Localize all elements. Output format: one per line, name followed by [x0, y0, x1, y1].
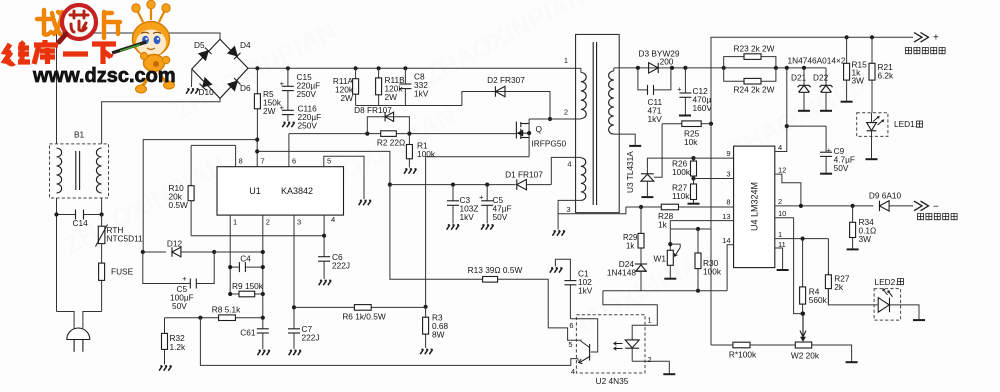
resistor R25 — [662, 123, 682, 125]
pin 7 of U1 — [256, 140, 258, 167]
transformer T1 core box — [576, 34, 620, 212]
svg-text:D6: D6 — [240, 83, 251, 93]
wire VCC rail — [390, 184, 516, 186]
resistor R23 — [724, 57, 744, 68]
svg-text:3: 3 — [566, 205, 570, 214]
wire pin13 to W1 — [670, 221, 733, 229]
svg-text:250V: 250V — [297, 89, 317, 99]
svg-text:W1: W1 — [654, 254, 667, 264]
IC U1 KA3842 — [217, 167, 344, 215]
svg-text:1kV: 1kV — [578, 286, 593, 296]
wire pin12 jog — [775, 174, 801, 206]
wire pin3 net — [694, 178, 734, 180]
wire pin8 net R28 — [641, 206, 734, 208]
resistor Rstar 100k — [711, 344, 733, 346]
svg-text:−: − — [933, 202, 939, 213]
capacitor C5 electrolytic — [143, 252, 191, 284]
wire TL431 ref — [654, 124, 662, 178]
capacitor C5 47u — [486, 185, 488, 201]
svg-text:11: 11 — [778, 240, 786, 249]
wire feedback bottom row — [603, 290, 727, 292]
resistor R1 — [408, 134, 410, 145]
opto phototransistor — [570, 319, 597, 352]
resistor R30 — [697, 229, 699, 253]
svg-text:12: 12 — [778, 166, 786, 175]
wire divider top — [670, 228, 711, 230]
diode D12 — [143, 251, 166, 253]
wire pin10 jog — [775, 218, 803, 314]
opto LED — [625, 340, 639, 348]
diode D4 — [228, 47, 241, 60]
svg-text:1kV: 1kV — [460, 212, 475, 222]
svg-text:D1 FR107: D1 FR107 — [505, 170, 543, 180]
wire snubber bottom row — [356, 105, 462, 107]
wire battery positive rail — [711, 37, 913, 345]
wire R13 sense — [390, 185, 483, 280]
wire pin4 supply — [775, 126, 787, 151]
svg-text:LED2.: LED2. — [875, 277, 898, 287]
diode D9 6A10 — [879, 201, 889, 211]
capacitor C1 — [569, 285, 571, 319]
common bar below LED1 — [866, 158, 878, 160]
pin 8 of U1 — [235, 145, 237, 166]
wire LED2 to common — [890, 305, 920, 320]
svg-text:5: 5 — [327, 157, 331, 166]
pin 6 of U1 — [288, 134, 290, 167]
svg-text:U3 TL431A: U3 TL431A — [625, 151, 635, 193]
svg-text:50V: 50V — [834, 163, 849, 173]
ground at bridge negative — [191, 69, 193, 87]
svg-text:R24 2k 2W: R24 2k 2W — [733, 85, 774, 95]
wire B1 right down through RTH FUSE — [101, 198, 103, 215]
svg-text:560k: 560k — [809, 295, 828, 305]
resistor R34 — [852, 206, 854, 222]
svg-text:14: 14 — [722, 236, 730, 245]
svg-text:D12: D12 — [167, 239, 183, 249]
ground below C5 — [481, 225, 493, 230]
svg-text:110k: 110k — [672, 191, 690, 201]
svg-text:C14: C14 — [73, 218, 89, 228]
svg-text:50V: 50V — [172, 301, 187, 311]
wire gate drive — [289, 133, 517, 135]
svg-text:W2 20k: W2 20k — [791, 351, 820, 361]
potentiometer W1 — [669, 229, 671, 250]
zener diode D21 — [803, 68, 805, 85]
svg-text:4: 4 — [567, 160, 571, 169]
bridge rectifier diamond — [192, 39, 248, 98]
wire primary HV rail — [248, 67, 576, 69]
svg-text:LM324M: LM324M — [750, 182, 760, 217]
svg-text:U1: U1 — [249, 186, 261, 196]
svg-text:LED1.: LED1. — [894, 119, 917, 129]
svg-text:www.dzsc.com: www.dzsc.com — [32, 65, 176, 87]
ground below C116 — [287, 115, 289, 121]
wire pin9 net — [694, 157, 734, 159]
svg-text:R*100k: R*100k — [729, 350, 757, 360]
capacitor C12 — [684, 68, 686, 93]
terminal battery positive — [914, 33, 929, 43]
capacitor C8 — [404, 68, 406, 84]
capacitor C14 — [57, 214, 76, 216]
svg-text:6: 6 — [569, 321, 573, 330]
svg-text:U2 4N35: U2 4N35 — [596, 376, 629, 386]
zener diode D22 — [825, 68, 827, 85]
svg-text:100k: 100k — [417, 149, 436, 159]
svg-text:C4: C4 — [240, 254, 251, 264]
svg-text:R8 5.1k: R8 5.1k — [212, 305, 241, 315]
wire W2 to common — [812, 345, 852, 362]
wire to LED2 — [828, 289, 877, 305]
transformer aux winding pins 4-3 — [580, 156, 582, 158]
ground for C1 — [550, 268, 562, 273]
svg-text:R13 39Ω 0.5W: R13 39Ω 0.5W — [468, 265, 523, 275]
transistor Q IRFPG50 — [515, 122, 517, 139]
wire D12 to pin2 — [214, 251, 263, 253]
watermark mascot — [108, 0, 175, 93]
resistor R5 — [256, 68, 258, 94]
potentiometer W2 — [795, 342, 811, 348]
svg-text:FUSE: FUSE — [111, 267, 134, 277]
ground below C3 — [447, 225, 459, 230]
wire pin7 to VCC rail — [257, 151, 390, 184]
svg-text:1kV: 1kV — [648, 114, 663, 124]
resistor R10 — [191, 144, 236, 146]
capacitor C9 — [825, 126, 827, 152]
svg-text:D8 FR107: D8 FR107 — [354, 105, 392, 115]
wire B1 left down to plug — [56, 198, 58, 215]
resistor R27 110k — [693, 179, 695, 185]
resistor R2 — [381, 131, 397, 137]
capacitor C7 — [292, 305, 296, 309]
svg-text:4: 4 — [571, 367, 575, 376]
diode D8 FR107 loop — [367, 117, 409, 134]
svg-text:100k: 100k — [672, 167, 691, 177]
ground below R32 — [159, 366, 171, 371]
svg-text:0.5W: 0.5W — [169, 200, 189, 210]
capacitor C61 — [257, 328, 269, 330]
fuse FUSE — [101, 244, 103, 264]
svg-text:9: 9 — [726, 149, 730, 158]
svg-text:1kV: 1kV — [414, 89, 429, 99]
transformer secondary winding — [613, 68, 615, 71]
capacitor C116 — [287, 91, 289, 111]
svg-text:1k: 1k — [626, 242, 634, 251]
resistor R11A — [355, 68, 357, 78]
wire D24 to opto LED — [640, 271, 642, 290]
svg-text:2W: 2W — [341, 93, 354, 103]
wire AC line to bridge bottom — [102, 98, 220, 143]
resistor R11B — [378, 68, 380, 78]
pin 2 of U1 — [262, 215, 264, 329]
svg-text:13: 13 — [722, 212, 730, 221]
svg-text:4: 4 — [331, 215, 335, 224]
svg-text:B1: B1 — [74, 130, 85, 140]
resistor R24 — [724, 68, 744, 81]
diode D2 FR307 — [495, 86, 505, 96]
diode D1 FR107 — [517, 179, 527, 189]
svg-text:R2 22Ω: R2 22Ω — [377, 138, 405, 148]
svg-text:R6 1k/0.5W: R6 1k/0.5W — [342, 312, 386, 322]
IC U4 LM324M — [734, 146, 775, 268]
svg-text:D2 FR307: D2 FR307 — [487, 75, 525, 85]
svg-text:3W: 3W — [852, 76, 865, 86]
svg-text:160V: 160V — [693, 103, 713, 113]
svg-text:4: 4 — [778, 143, 782, 152]
wire transformer pin2 to drain — [529, 118, 581, 120]
resistor R15 — [846, 37, 848, 63]
svg-text:+: + — [827, 146, 832, 155]
wire R10 to pin4 — [191, 235, 324, 237]
svg-text:Q: Q — [536, 124, 543, 134]
resistor R28 body — [661, 204, 678, 210]
resistor R32 — [164, 318, 166, 334]
svg-text:D10: D10 — [199, 87, 215, 97]
svg-text:222J: 222J — [332, 261, 350, 271]
svg-text:6.2k: 6.2k — [878, 71, 895, 81]
watermark logo zhaoxinpian — [37, 5, 120, 42]
filter transformer B1 — [50, 144, 109, 198]
pin 1 of U1 — [229, 215, 231, 294]
svg-text:+: + — [677, 85, 682, 94]
capacitor C15 — [287, 68, 289, 86]
svg-text:7: 7 — [261, 157, 265, 166]
svg-text:3: 3 — [726, 170, 730, 179]
common bar below C12 — [679, 115, 691, 117]
resistor R3 — [425, 307, 427, 317]
svg-text:R9 150k: R9 150k — [232, 281, 264, 291]
diode D3 BYW29 — [649, 63, 659, 73]
thermistor RTH NTC5D11 — [101, 215, 103, 227]
wire R28 left tap — [626, 206, 641, 208]
pin 3 of U1 — [293, 215, 295, 329]
wire source to R3 — [426, 157, 529, 307]
svg-text:2: 2 — [648, 355, 652, 364]
svg-text:R23 2k 2W: R23 2k 2W — [733, 44, 774, 54]
resistor R4 — [802, 239, 804, 287]
wire D2 snubber loop — [462, 92, 550, 120]
wire startup VCC link — [143, 140, 257, 252]
svg-text:IRFPG50: IRFPG50 — [532, 139, 567, 149]
diode D24 1N4148 — [635, 263, 647, 265]
svg-text:2W: 2W — [263, 106, 276, 116]
terminal battery negative — [914, 201, 929, 211]
ground below C6 — [319, 280, 331, 285]
svg-text:3: 3 — [297, 218, 301, 227]
resistor R6 — [294, 306, 354, 308]
wire opto pin2 to common — [632, 361, 669, 373]
svg-text:8: 8 — [726, 198, 730, 207]
ground below C61 — [257, 350, 269, 355]
svg-text:2: 2 — [778, 197, 782, 206]
resistor R8 — [165, 317, 219, 319]
AC plug — [57, 312, 75, 329]
pin 4 of U1 — [323, 215, 325, 257]
svg-text:+: + — [182, 274, 187, 283]
svg-text:D21: D21 — [791, 73, 807, 83]
wire AC line top — [57, 33, 221, 144]
svg-text:200: 200 — [660, 57, 674, 67]
diode D6 — [228, 78, 241, 91]
resistor R26 — [691, 156, 695, 160]
capacitor C4 — [230, 266, 239, 268]
optocoupler U2 4N35 — [576, 315, 645, 373]
capacitor C3 — [452, 185, 454, 201]
svg-text:+: + — [280, 79, 285, 88]
svg-text:1N4746A014×2: 1N4746A014×2 — [788, 56, 846, 66]
resistor R29 — [640, 207, 642, 233]
svg-text:D5: D5 — [194, 40, 205, 50]
wire R28 net tap — [558, 207, 626, 214]
transformer primary winding pins 1-2 — [576, 67, 581, 69]
svg-text:1: 1 — [564, 56, 568, 65]
svg-text:3W: 3W — [859, 234, 872, 244]
svg-text:222J: 222J — [302, 333, 320, 343]
svg-text:8: 8 — [239, 157, 243, 166]
svg-text:100k: 100k — [703, 267, 722, 277]
svg-text:8W: 8W — [432, 330, 445, 340]
wire V+ feed — [786, 68, 788, 126]
wire battery negative rail — [775, 205, 874, 207]
common bar below C9 — [820, 173, 832, 175]
ground below R3 — [420, 349, 432, 354]
svg-text:1: 1 — [233, 218, 237, 227]
LED LED2 green — [874, 289, 901, 321]
wire pin1 net — [775, 238, 829, 240]
svg-text:1N4148: 1N4148 — [607, 268, 636, 278]
wire secondary output rail — [614, 67, 826, 69]
svg-text:+: + — [479, 193, 484, 202]
shunt regulator U3 TL431A — [647, 158, 693, 174]
svg-text:50V: 50V — [493, 212, 508, 222]
svg-text:10: 10 — [778, 209, 786, 218]
svg-text:1: 1 — [778, 230, 782, 239]
svg-text:5: 5 — [568, 340, 572, 349]
diode D10 — [199, 78, 211, 90]
svg-text:U4: U4 — [750, 219, 760, 231]
svg-text:1: 1 — [648, 316, 652, 325]
svg-text:6: 6 — [292, 157, 296, 166]
capacitor C11 snubber — [638, 68, 648, 90]
pin 5 of U1 to ground — [324, 156, 364, 199]
ground below C7 — [289, 350, 301, 355]
resistor R9 — [230, 293, 239, 295]
svg-text:250V: 250V — [298, 120, 318, 130]
svg-text:2: 2 — [564, 108, 568, 117]
resistor R21 — [871, 37, 873, 63]
svg-text:D4: D4 — [240, 40, 251, 50]
diode D5 — [199, 48, 212, 61]
resistor R27 2k — [827, 239, 829, 275]
svg-text:+: + — [280, 103, 285, 112]
wire opto pin1 jog — [603, 291, 657, 340]
decor ghost watermarks — [59, 0, 896, 350]
wire pin14 riser — [727, 245, 734, 291]
svg-text:KA3842: KA3842 — [281, 186, 313, 196]
svg-text:C61: C61 — [240, 328, 256, 338]
svg-text:10k: 10k — [684, 137, 698, 147]
wire D1 to transformer pin4 — [551, 157, 581, 184]
wire primary return rail — [200, 318, 578, 366]
watermark text weiku yixia — [5, 40, 116, 64]
svg-text:2k: 2k — [834, 282, 844, 292]
svg-text:D9 6A10: D9 6A10 — [869, 191, 902, 201]
pin 11 of U4 to common — [775, 248, 783, 269]
svg-text:2W: 2W — [385, 92, 398, 102]
svg-text:+: + — [933, 33, 939, 44]
capacitor C6 — [318, 256, 330, 258]
wire pin3 to ground — [558, 200, 581, 229]
ground below R1 — [404, 169, 416, 174]
svg-text:1k: 1k — [658, 220, 668, 230]
LED LED1 red — [857, 113, 888, 137]
wire secondary bottom to common — [614, 134, 635, 145]
svg-text:2: 2 — [266, 218, 270, 227]
svg-text:D22: D22 — [813, 73, 829, 83]
svg-text:1.2k: 1.2k — [170, 342, 187, 352]
svg-text:NTC5D11: NTC5D11 — [107, 234, 144, 244]
